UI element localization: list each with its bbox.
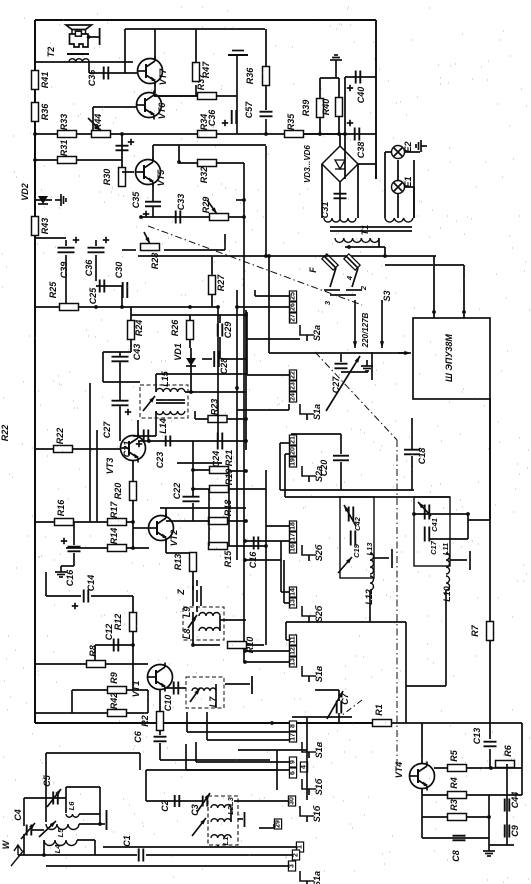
wire rail x237 (236, 290, 238, 560)
contact 20 (289, 446, 296, 456)
svg-text:R39: R39 (301, 100, 311, 117)
wire antenna (18, 854, 137, 856)
svg-text:3: 3 (289, 864, 296, 868)
svg-text:C1: C1 (122, 835, 132, 847)
wire sw h9 (46, 865, 288, 867)
wire gnd psu stem (335, 66, 337, 78)
wire top rail 2 (125, 28, 265, 30)
wire rail x244 (243, 163, 245, 662)
wire R27 down (211, 295, 213, 307)
capacitor C14 (83, 590, 85, 603)
svg-text:12: 12 (290, 647, 297, 655)
svg-text:R15: R15 (223, 550, 233, 568)
wire epu feed1 (433, 256, 435, 318)
wire l10 down (445, 590, 447, 686)
mains arrow 1 (354, 300, 356, 348)
wire l9 r (219, 616, 221, 631)
svg-text:8: 8 (290, 724, 297, 728)
node epufeed (267, 254, 271, 258)
wire vert x97 (96, 430, 98, 522)
wire R40 down (338, 117, 340, 134)
wire l6 top (66, 786, 100, 788)
svg-text:C43: C43 (132, 344, 142, 361)
wire bridge right (358, 163, 376, 165)
capacitor C13 (484, 741, 497, 743)
capacitor C33 (175, 211, 177, 224)
wire ladder top (131, 314, 246, 316)
inductor L14 (156, 411, 185, 415)
inductor L12 (370, 576, 374, 590)
capacitor C18 (404, 449, 420, 451)
tuning arrow C4 (21, 823, 35, 839)
tank box L13 (340, 497, 374, 578)
svg-text:C23: C23 (155, 452, 165, 469)
capacitor C39 (58, 247, 75, 249)
resistor R31 (58, 157, 77, 164)
svg-text:R34: R34 (199, 114, 209, 131)
tuning arrow L13 (338, 557, 352, 573)
svg-text:C2: C2 (160, 800, 170, 812)
svg-text:L6: L6 (67, 801, 76, 811)
plus C40 (347, 87, 353, 89)
node epu1 (432, 310, 436, 314)
ground PSU top (330, 55, 342, 66)
wire c27b stem (340, 353, 342, 362)
capacitor C19 (350, 531, 352, 546)
wire c28 right (221, 358, 246, 360)
resistor R47 (193, 63, 200, 82)
svg-text:VD3...VD6: VD3...VD6 (303, 145, 312, 183)
resistor R34 (198, 131, 217, 138)
wire VT6 base (93, 106, 137, 108)
svg-text:13: 13 (290, 599, 297, 607)
svg-text:4: 4 (345, 275, 354, 281)
node r15b (264, 544, 268, 548)
wire r21 r (228, 470, 246, 472)
switch S2b2 arm (302, 606, 316, 616)
svg-text:C44: C44 (510, 792, 520, 809)
wire c16 g (61, 565, 74, 567)
wire rail x266 (265, 146, 267, 256)
diode VD1 (186, 358, 196, 366)
svg-text:R7: R7 (470, 624, 480, 636)
wire s1a v (288, 404, 290, 410)
capacitor C17 (424, 527, 426, 542)
contact 14 (289, 587, 296, 597)
node border junction (270, 721, 274, 725)
contact 3 (288, 861, 295, 871)
resistor R15 (209, 543, 228, 550)
wire mid rail (35, 133, 345, 135)
svg-text:R26: R26 (170, 319, 180, 337)
wire s2b2 (245, 540, 289, 542)
wire vt3 row (177, 462, 222, 464)
resistor R33 (58, 131, 77, 138)
wire fuse leads (324, 256, 336, 268)
wire pad v (254, 290, 256, 296)
transistor VT1 (148, 665, 173, 690)
resistor R1 (373, 720, 392, 727)
node r10 (191, 643, 195, 647)
node r14 (131, 546, 135, 550)
svg-text:C4: C4 (13, 809, 23, 821)
wire R24 up (130, 307, 132, 320)
contact 13b (289, 657, 296, 667)
wire to epu (269, 352, 406, 354)
wire stub200 (236, 199, 244, 201)
svg-text:L8: L8 (182, 629, 192, 640)
ground VD2 (55, 194, 66, 206)
wire lampr2 (413, 187, 415, 218)
wire c2 l (145, 770, 147, 801)
svg-text:19: 19 (290, 458, 297, 466)
svg-text:R4: R4 (449, 777, 459, 789)
resistor R26 (187, 321, 194, 340)
resistor R29 (210, 214, 229, 221)
wire epu right down (489, 399, 491, 622)
contact 13 (289, 598, 296, 608)
svg-text:R17: R17 (109, 501, 119, 519)
wire rail 256 (138, 255, 345, 257)
node speaker out (87, 35, 91, 39)
svg-text:R41: R41 (40, 72, 50, 89)
capacitor C43 (112, 356, 129, 358)
transformer T1 primary (335, 238, 379, 242)
wire c14 r (91, 595, 133, 597)
node rail307 a (64, 305, 68, 309)
svg-text:C31: C31 (320, 202, 330, 219)
transistor VT5 (136, 160, 161, 185)
svg-text:9: 9 (290, 760, 297, 764)
plus C16 (61, 540, 67, 542)
tuner box L1 L2 L3 (208, 796, 238, 845)
wire epu feed2 h (385, 264, 464, 266)
wire R35 to bridge (303, 133, 345, 135)
svg-text:S1a: S1a (312, 404, 322, 420)
svg-text:C10: C10 (163, 695, 173, 712)
wire tank r7 (468, 519, 490, 521)
switch S1b arm (302, 779, 316, 789)
svg-text:R47: R47 (201, 61, 211, 79)
wire VT5 collector rail (179, 162, 244, 164)
resistor R44 (92, 131, 111, 138)
svg-text:C13: C13 (472, 728, 482, 745)
wire VT5c (178, 145, 180, 162)
ground VT4 (483, 845, 495, 856)
node b4 (243, 660, 247, 664)
wire sw h4 (186, 769, 289, 771)
wire psu out (345, 255, 436, 257)
wire r19 r (228, 488, 266, 490)
svg-text:C18: C18 (417, 448, 427, 465)
arrow into epu (398, 352, 411, 354)
capacitor C6 (154, 736, 167, 738)
svg-text:VD1: VD1 (173, 343, 183, 361)
wire c14 l (45, 572, 47, 596)
node vd1 (189, 390, 193, 394)
capacitor C5 (52, 792, 54, 805)
svg-text:C35: C35 (131, 191, 141, 209)
wire c7 top (315, 689, 339, 691)
wire hb (406, 685, 446, 687)
switch S1v arm (302, 742, 316, 752)
svg-text:L10: L10 (442, 586, 452, 602)
transformer T1 sec1 (324, 218, 356, 222)
wire c39 down (65, 255, 67, 307)
wire VT6 emitter right (154, 95, 196, 97)
svg-text:R21: R21 (224, 450, 234, 467)
wire r7 up stub (489, 399, 491, 520)
tuning arrow C3 (197, 793, 210, 812)
wire s1d1 (245, 650, 289, 652)
wire tanks top1 (280, 489, 414, 491)
wire vert x90 (89, 383, 91, 522)
inductor L9 (199, 613, 220, 616)
svg-text:R24: R24 (134, 320, 144, 337)
wire bottom border (35, 722, 374, 724)
node r8 c12 (94, 662, 98, 666)
svg-text:R9: R9 (109, 672, 119, 684)
wire x307 (306, 717, 308, 800)
wire c30 down (95, 255, 97, 281)
wire c20 down (340, 462, 342, 490)
wire 374 (156, 373, 246, 375)
transistor VT4 (410, 764, 435, 789)
wire C38 (345, 133, 376, 135)
wire VT7-VT6 (154, 83, 156, 93)
wire r18 l (166, 520, 210, 522)
wire c20 up (340, 434, 342, 454)
node c35 (139, 215, 143, 219)
wire r10 v (192, 612, 194, 645)
contact 24 (289, 392, 296, 402)
svg-text:VD2: VD2 (20, 183, 30, 201)
wire R30 to VT5 (122, 171, 134, 173)
wire l6 right (99, 787, 101, 824)
wire r19 l (193, 488, 210, 490)
resistor R8 (87, 661, 106, 668)
tank box L11 (414, 497, 450, 566)
wire c18 stem (411, 418, 413, 449)
resistor R22 (54, 446, 73, 453)
dash link C (396, 440, 398, 766)
resistor R18 (209, 518, 228, 525)
node b1 (243, 539, 247, 543)
wire VT3 c (138, 440, 172, 442)
resistor R16 (55, 519, 74, 526)
contact 16 (289, 543, 296, 553)
wire rail x125 drop (124, 29, 126, 73)
svg-text:L9: L9 (182, 607, 192, 618)
capacitor C34b (231, 110, 233, 124)
wire r9 l (71, 690, 73, 713)
wire right rail (521, 723, 523, 764)
capacitor C2 (174, 795, 176, 807)
svg-text:22: 22 (290, 371, 297, 379)
wire c10 (165, 687, 186, 689)
wire R23 wire (195, 418, 246, 420)
capacitor C27 (112, 400, 129, 402)
resistor R5 (448, 765, 467, 772)
svg-text:S1в: S1в (314, 665, 324, 682)
svg-text:VT6: VT6 (157, 102, 167, 120)
svg-text:2: 2 (359, 285, 368, 291)
contact 17b (289, 732, 296, 742)
inductor L1 (211, 835, 231, 838)
speaker B1 (66, 25, 92, 30)
wire C35 (152, 184, 154, 202)
node x218 (216, 305, 220, 309)
wire c27b r (341, 371, 368, 373)
wire pad22 v (246, 312, 248, 375)
node b3 (243, 649, 247, 653)
capacitor C41 (424, 505, 426, 520)
switch S2a arm (300, 325, 314, 335)
node r21 l (191, 468, 195, 472)
trimmer arrow R28 (144, 232, 150, 244)
svg-text:VT5: VT5 (156, 169, 166, 187)
resistor R23 (208, 416, 227, 423)
node pad26 (235, 305, 239, 309)
resistor R35 (285, 131, 304, 138)
wire speaker to ground (88, 36, 99, 38)
node rail left (33, 132, 37, 136)
wire VD2 (35, 199, 52, 201)
svg-text:L5: L5 (56, 828, 65, 838)
resistor R7 (487, 622, 494, 641)
capacitor C57 (260, 111, 273, 113)
wire s1d2 (245, 661, 289, 663)
svg-text:6: 6 (290, 771, 297, 775)
wire s1v r (292, 716, 352, 718)
resistor R37 (198, 93, 217, 100)
wire lamp top2 (404, 151, 420, 153)
wire l4 rv (94, 840, 96, 855)
inductor L7 (192, 688, 216, 691)
svg-text:C33: C33 (176, 194, 186, 211)
wire l15 left up (155, 374, 157, 392)
capacitor C4 (26, 825, 28, 836)
wire sw h5 (234, 800, 288, 802)
node rt2 (466, 512, 470, 516)
resistor R43 (32, 217, 39, 236)
svg-text:R2: R2 (140, 715, 150, 727)
wire x277 (276, 750, 278, 790)
wire c14 h (46, 595, 81, 597)
wire s2a2 loop2v (284, 454, 286, 497)
wire c22 v2 (192, 503, 194, 521)
resistor R20 (130, 482, 137, 501)
wire sw v3 (195, 742, 197, 762)
svg-text:Ш ЭПУ38М: Ш ЭПУ38М (444, 334, 454, 382)
node b2 (243, 558, 247, 562)
tuning arrow C7 (327, 691, 343, 719)
wire c21 wire (133, 435, 156, 437)
resistor R6 (496, 761, 515, 768)
contact 23 (289, 381, 296, 391)
svg-text:17: 17 (290, 733, 297, 741)
svg-text:C5: C5 (42, 774, 52, 786)
wire c5 row (24, 797, 66, 799)
mains arrow 2 (381, 300, 383, 348)
wire psu vert (344, 77, 346, 179)
svg-text:21: 21 (290, 436, 297, 444)
transformer T2 core (67, 53, 89, 55)
svg-text:13: 13 (290, 658, 297, 666)
wire rail x218 (217, 307, 219, 440)
wire R36 up (265, 29, 267, 66)
ground tuner (238, 818, 243, 820)
wire R39 up (319, 78, 321, 98)
wire top mid (35, 237, 66, 239)
svg-text:C14: C14 (86, 575, 96, 592)
ground L7 (225, 683, 250, 685)
svg-text:R30: R30 (102, 169, 112, 186)
wire vt4 up (421, 723, 423, 764)
capacitor C21 (143, 430, 145, 443)
wire R24 down (130, 340, 132, 352)
capacitor C7 (336, 701, 338, 714)
wire lamp left (384, 152, 386, 218)
wire c28 left (202, 358, 212, 360)
wire x406 (405, 622, 407, 723)
wire vt4 row (434, 767, 522, 769)
wire r10 (193, 644, 220, 646)
fuse F (322, 254, 338, 270)
node l4 w (42, 853, 46, 857)
wire r3 r (488, 795, 490, 845)
wire c13 v (489, 749, 491, 768)
svg-text:R29: R29 (201, 197, 211, 214)
wire s1a h (237, 409, 289, 411)
capacitor C42 (348, 507, 350, 522)
wire c2 top (146, 769, 277, 771)
tuning arrow C5 (47, 789, 61, 807)
wire ant mid (103, 846, 296, 848)
wire VT7 collector (154, 29, 156, 59)
wire VT2 e h (166, 552, 193, 554)
node c12 (131, 643, 135, 647)
svg-text:C8: C8 (451, 850, 461, 862)
inductor L4 (44, 840, 77, 846)
ground bar left tank (374, 557, 389, 559)
resistor R41 (32, 71, 39, 90)
wire c30 stem (95, 240, 97, 246)
node rail307 c (188, 305, 192, 309)
wire vt1 base (147, 690, 149, 713)
node c13 (489, 766, 493, 770)
wire VT3 e (132, 460, 134, 482)
wire sw v2 (206, 712, 208, 740)
wire l14 right down (194, 411, 196, 419)
capacitor C38 (354, 128, 356, 141)
plus C27 (125, 411, 131, 413)
resistor R19 (210, 486, 229, 493)
lamp E2 (392, 146, 405, 159)
contact 9 (289, 757, 296, 767)
wire c39 stem (65, 240, 67, 246)
svg-text:R36: R36 (40, 103, 50, 121)
wire l12 down (369, 590, 371, 622)
wire s2a arm (246, 338, 300, 340)
transformer T1 core (330, 226, 412, 228)
wire bundle h2 (245, 559, 281, 561)
resistor R21 (210, 467, 229, 474)
plus C39 (73, 239, 79, 241)
svg-text:R40: R40 (321, 99, 331, 116)
wire C29 stem (219, 315, 221, 323)
wire VT1 d (159, 690, 161, 712)
